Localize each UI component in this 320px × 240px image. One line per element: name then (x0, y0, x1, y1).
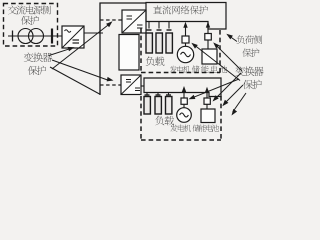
battery breaker square (top) (205, 34, 212, 41)
label: battery (bottom) (193, 124, 219, 131)
pointer: right converter-protection downward (233, 93, 246, 112)
transformer T1 (two overlapping circles) (18, 29, 33, 44)
pointer: left converter-protection to U1 (49, 48, 72, 55)
pointer: right converter-protection to bottom battery breaker (215, 73, 242, 100)
label: converter protection (left) line1 (24, 53, 52, 62)
pointer: right converter-protection to top generator breaker (crosses battery box) (194, 44, 241, 80)
dashed zone: top DC microgrid (140, 28, 142, 73)
pointer: right converter-protection to bottom generator breaker (191, 79, 239, 98)
generator breaker square (top) (182, 36, 189, 43)
label: DC network protection (153, 6, 208, 15)
label: AC source side protection line1 (8, 5, 51, 14)
DC network protection box (with stepped bottom-right) (146, 3, 226, 30)
dashed feeder: bus to converter U2 (100, 19, 122, 21)
battery feeder w/ up arrow (top) (207, 23, 209, 34)
load feeder stubs (bottom network) (146, 93, 148, 95)
wire: AC line through transformer (8, 35, 62, 37)
label: converter protection (right) line1 (235, 66, 263, 76)
generator feeder w/ up arrow (top) (185, 24, 187, 36)
battery B1 (top) (202, 49, 217, 64)
load resistors L4-L6 (bottom network) (144, 97, 150, 115)
breaker tick left of transformer (12, 31, 14, 42)
label: load (top) (146, 56, 165, 66)
wire: U1 output to DC bus (84, 32, 103, 34)
pointer: left converter-protection to U3 feeder (52, 60, 109, 81)
label: generator (top) (170, 66, 190, 73)
bottom DC ring bus (with stepped bottom-right) (144, 78, 221, 97)
generator feeder w/ up arrow (bottom) (183, 89, 185, 98)
dashed feeder: bus to converter U3 (100, 84, 123, 86)
label: battery (top) (192, 65, 227, 73)
label: load side protection line1 (237, 35, 263, 44)
label: AC source side protection line2 (21, 16, 39, 25)
DC bus (vertical) (99, 3, 101, 96)
pointer: left converter-protection to U2 feeder (52, 24, 110, 70)
pointer: right converter-protection to dashed border (224, 85, 243, 104)
generator G1 (top) (177, 46, 193, 62)
pointer: load-side-protection to network right corner (229, 36, 238, 42)
label: load (bottom) (155, 116, 174, 126)
pointer: left converter-protection to bus bottom (50, 67, 100, 94)
load resistors L1-L3 (top network) (146, 33, 152, 53)
dashed zone: bottom DC microgrid (140, 96, 142, 140)
battery feeder w/ up arrow (bottom) (206, 90, 208, 99)
wire: bus top to DC network box (100, 2, 147, 4)
generator breaker square (bottom) (181, 98, 187, 104)
converter U1 AC/DC rectifier (62, 26, 84, 48)
label: generator (bottom) (170, 125, 191, 132)
battery B2 (bottom) (201, 109, 215, 123)
wire: U3 to bottom ring (141, 85, 145, 87)
label: converter protection (right) line2 (243, 80, 262, 89)
label: load side protection line2 (242, 48, 259, 57)
pointer: right converter-protection to top battery breaker (crosses battery box) (215, 44, 242, 71)
converter U3 DC/DC (121, 75, 141, 95)
load box fed by U2 (119, 35, 139, 71)
generator G2 (bottom) (177, 108, 192, 123)
load feeder stubs (top network) (148, 22, 150, 29)
battery breaker square (bottom) (204, 98, 210, 104)
breaker tick right of transformer (51, 29, 53, 44)
protection zone: AC source side (dashed) (4, 4, 58, 47)
converter U2 DC/DC (122, 10, 146, 33)
label: converter protection (left) line2 (28, 66, 46, 75)
